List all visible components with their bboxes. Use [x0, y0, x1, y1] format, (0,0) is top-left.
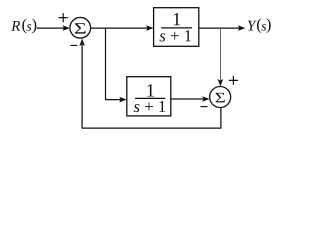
wire input to summer S1: [37, 27, 64, 29]
minus sign at summer S2: [200, 106, 207, 108]
plus sign at summer S1: [59, 13, 68, 22]
sigma glyph S2: [216, 93, 225, 103]
summing junction S1: [70, 17, 91, 38]
numerator 1 of block G2: [147, 84, 154, 96]
node R(s): [11, 19, 36, 34]
block G1: [154, 8, 199, 47]
denominator s+1 of block G1: [160, 30, 192, 41]
wire block G1 to output: [199, 27, 240, 29]
fraction bar of block G2: [135, 97, 165, 99]
wire junction A down to block G2: [106, 28, 122, 100]
sigma glyph S1: [75, 23, 86, 33]
summing junction S2: [210, 87, 231, 108]
numerator 1 of block G1: [174, 13, 181, 25]
wire block G2 to summer S2: [171, 98, 204, 100]
block G2: [127, 77, 171, 116]
denominator s+1 of block G2: [134, 101, 166, 112]
wire summer S1 to block G1: [91, 27, 148, 29]
wire summer S2 output feedback to S1: [82, 45, 221, 128]
fraction bar of block G1: [161, 27, 192, 29]
node Y(s): [248, 18, 271, 33]
plus sign at summer S2: [229, 76, 238, 85]
minus sign at summer S1: [70, 44, 77, 46]
wire junction B down to summer S2: [219, 28, 221, 80]
